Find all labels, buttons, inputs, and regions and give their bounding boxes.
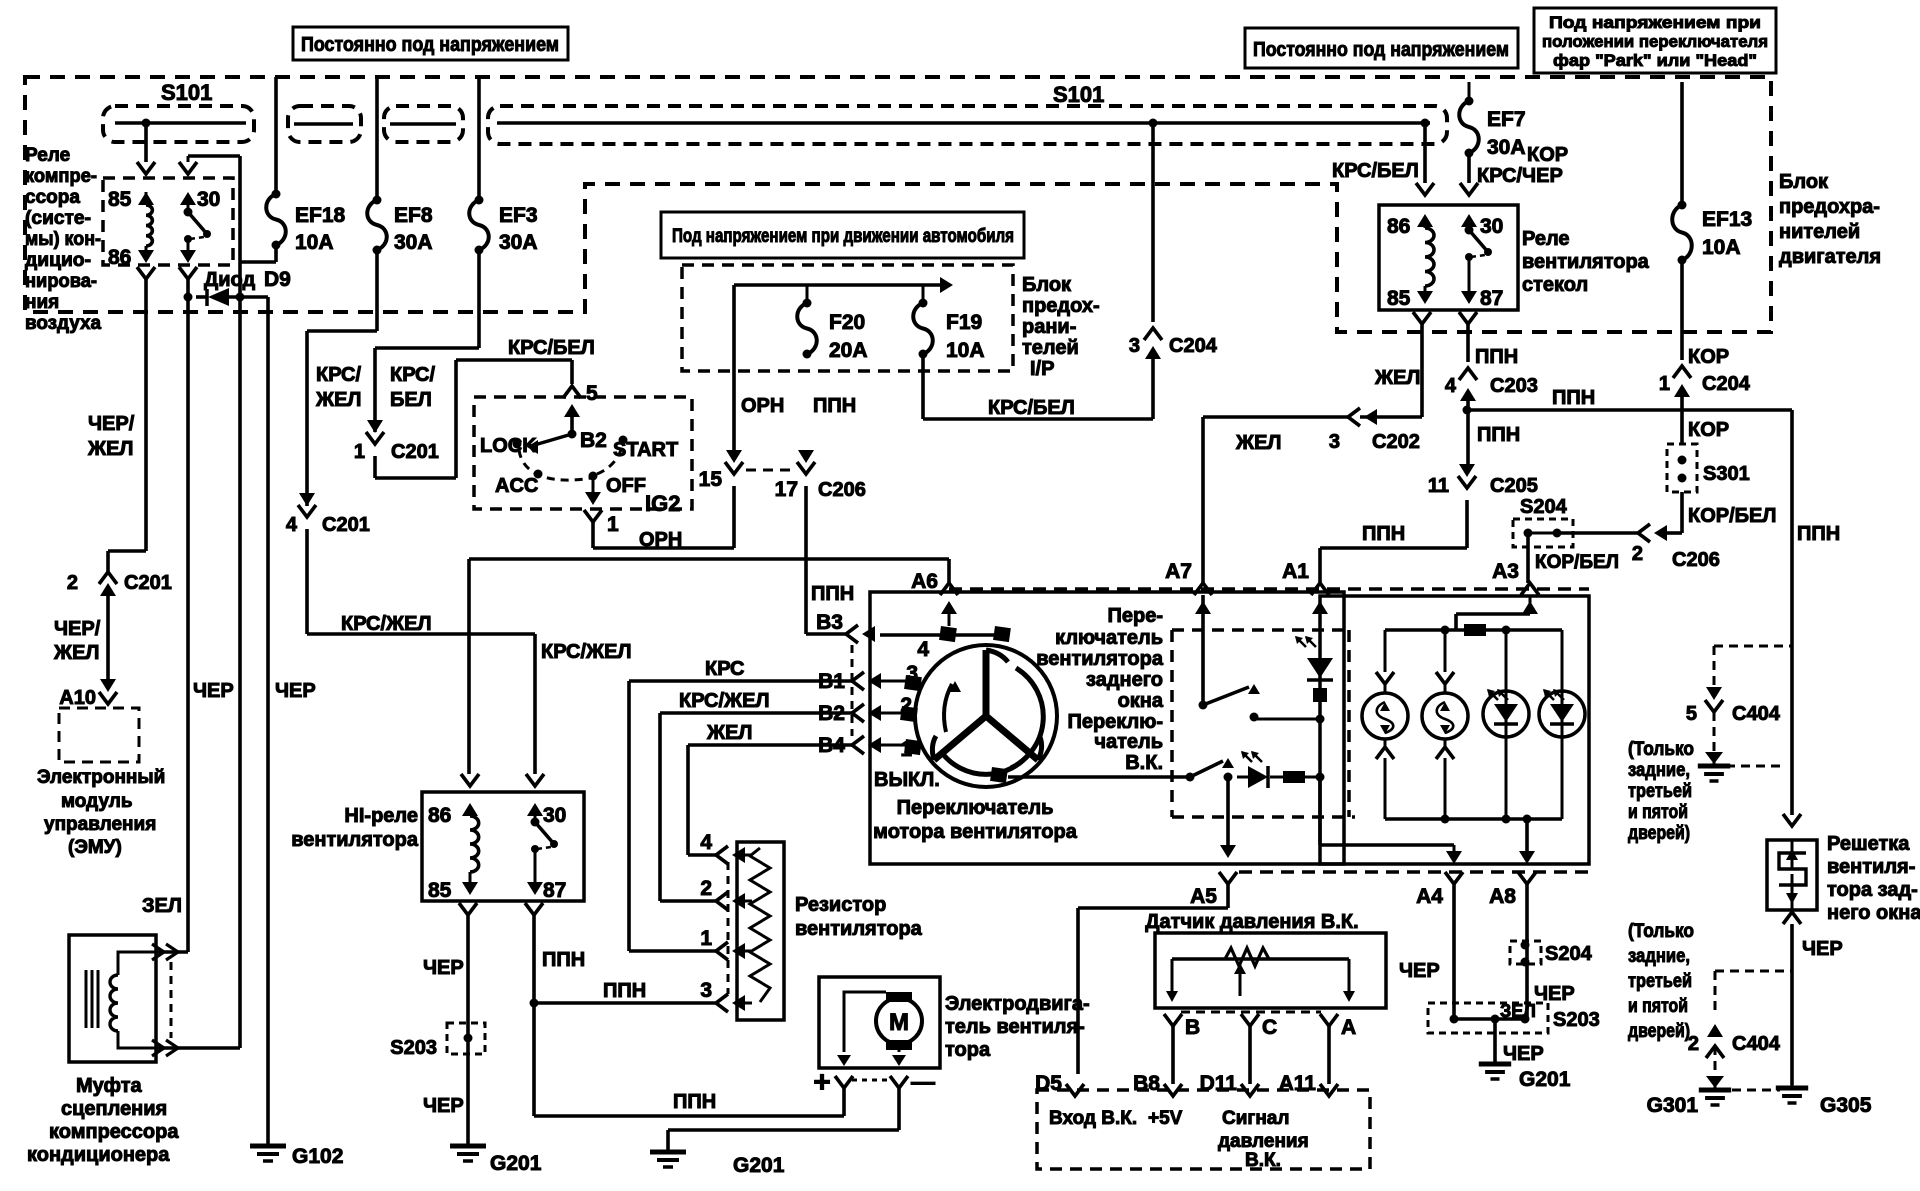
svg-text:I/P: I/P — [1030, 358, 1054, 380]
svg-text:S101: S101 — [161, 80, 212, 105]
svg-text:Датчик давления В.К.: Датчик давления В.К. — [1145, 911, 1358, 933]
svg-text:задние,: задние, — [1628, 760, 1690, 781]
svg-text:А: А — [1341, 1016, 1356, 1039]
svg-text:компре-: компре- — [25, 166, 97, 187]
svg-text:ППН: ППН — [1475, 346, 1518, 368]
svg-text:А3: А3 — [1492, 560, 1519, 583]
svg-text:ЖЕЛ: ЖЕЛ — [706, 722, 752, 744]
svg-text:2: 2 — [700, 877, 712, 900]
svg-text:85: 85 — [108, 188, 132, 211]
svg-text:S204: S204 — [1520, 496, 1568, 518]
svg-text:А5: А5 — [1190, 885, 1217, 908]
svg-text:телей: телей — [1022, 337, 1079, 359]
svg-text:ВЫКЛ.: ВЫКЛ. — [874, 769, 940, 791]
svg-text:EF13: EF13 — [1702, 208, 1752, 231]
svg-text:S203: S203 — [1553, 1009, 1600, 1031]
svg-text:третьей: третьей — [1628, 971, 1692, 992]
svg-text:86: 86 — [1387, 215, 1410, 238]
svg-text:Сигнал: Сигнал — [1222, 1108, 1289, 1129]
svg-text:КОР/БЕЛ: КОР/БЕЛ — [1535, 552, 1619, 573]
svg-text:ЧЕР: ЧЕР — [1399, 960, 1440, 982]
svg-text:КРС/БЕЛ: КРС/БЕЛ — [988, 397, 1075, 419]
svg-text:В.К.: В.К. — [1125, 752, 1163, 774]
svg-text:стекол: стекол — [1522, 274, 1588, 296]
svg-text:А8: А8 — [1489, 885, 1516, 908]
svg-text:C: C — [1262, 1016, 1277, 1039]
svg-text:EF18: EF18 — [295, 204, 346, 227]
svg-text:ППН: ППН — [542, 949, 585, 971]
svg-text:мотора вентилятора: мотора вентилятора — [873, 821, 1078, 843]
svg-text:модуль: модуль — [61, 791, 133, 812]
svg-text:тора: тора — [945, 1039, 991, 1061]
svg-text:2: 2 — [900, 694, 912, 717]
svg-text:ссора: ссора — [25, 187, 80, 208]
svg-text:ЧЕР: ЧЕР — [275, 680, 316, 702]
svg-text:него окна: него окна — [1827, 902, 1920, 924]
svg-text:EF3: EF3 — [499, 204, 538, 227]
svg-text:EF8: EF8 — [394, 204, 433, 227]
svg-text:С202: С202 — [1372, 431, 1420, 453]
svg-text:М: М — [889, 1009, 909, 1036]
svg-text:ППН: ППН — [673, 1091, 716, 1113]
svg-text:ЗЕЛ: ЗЕЛ — [142, 895, 182, 917]
svg-text:Реле: Реле — [25, 145, 70, 166]
svg-text:85: 85 — [428, 879, 452, 902]
svg-text:ППН: ППН — [1362, 523, 1405, 545]
svg-text:ОРН: ОРН — [741, 395, 784, 417]
svg-text:Муфта: Муфта — [76, 1075, 143, 1097]
svg-text:3: 3 — [1329, 431, 1340, 453]
svg-text:БЕЛ: БЕЛ — [390, 389, 432, 411]
svg-text:HI-реле: HI-реле — [344, 805, 418, 827]
svg-text:КРС/: КРС/ — [316, 364, 361, 386]
svg-text:—: — — [911, 1069, 935, 1096]
svg-text:17: 17 — [775, 478, 798, 501]
svg-text:1: 1 — [607, 513, 619, 536]
svg-text:(систе-: (систе- — [25, 208, 91, 229]
svg-text:(ЭМУ): (ЭМУ) — [68, 837, 122, 858]
svg-text:КРС/БЕЛ: КРС/БЕЛ — [1332, 160, 1419, 182]
svg-text:С203: С203 — [1490, 375, 1538, 397]
svg-text:5: 5 — [586, 382, 598, 405]
svg-text:2: 2 — [67, 572, 78, 594]
svg-text:В.К.: В.К. — [1245, 1150, 1281, 1171]
svg-text:ЧЕР/: ЧЕР/ — [54, 618, 101, 640]
svg-text:ЧЕР: ЧЕР — [423, 957, 464, 979]
svg-text:заднего: заднего — [1086, 669, 1163, 691]
svg-text:С201: С201 — [391, 441, 439, 463]
svg-text:тора зад-: тора зад- — [1827, 879, 1918, 901]
svg-text:Под напряжением при движении а: Под напряжением при движении автомобиля — [672, 226, 1014, 247]
svg-text:ППН: ППН — [811, 583, 854, 605]
svg-text:КРС/ЖЕЛ: КРС/ЖЕЛ — [541, 641, 632, 663]
svg-text:1: 1 — [354, 441, 365, 463]
svg-text:ЖЕЛ: ЖЕЛ — [1235, 432, 1281, 454]
svg-text:30: 30 — [197, 188, 220, 211]
svg-text:вентилятора: вентилятора — [1036, 648, 1164, 670]
svg-text:4: 4 — [700, 831, 712, 854]
svg-text:G102: G102 — [292, 1145, 343, 1168]
svg-text:КОР: КОР — [1527, 144, 1568, 166]
svg-text:вентилятора: вентилятора — [795, 918, 923, 940]
svg-text:дицио-: дицио- — [25, 250, 91, 271]
svg-text:10A: 10A — [295, 231, 334, 254]
svg-text:С205: С205 — [1490, 475, 1538, 497]
svg-text:воздуха: воздуха — [25, 313, 101, 334]
svg-text:рани-: рани- — [1022, 316, 1076, 338]
svg-text:КРС/ЖЕЛ: КРС/ЖЕЛ — [341, 613, 432, 635]
svg-text:тель вентиля-: тель вентиля- — [945, 1016, 1085, 1038]
svg-text:F19: F19 — [946, 311, 982, 334]
svg-text:11: 11 — [1428, 475, 1449, 497]
svg-text:фар "Park" или "Head": фар "Park" или "Head" — [1553, 51, 1757, 70]
svg-text:КРС/: КРС/ — [390, 364, 435, 386]
svg-text:двигателя: двигателя — [1779, 246, 1881, 268]
svg-text:С204: С204 — [1702, 373, 1751, 395]
svg-text:компрессора: компрессора — [49, 1121, 179, 1143]
svg-text:Пере-: Пере- — [1108, 605, 1164, 627]
svg-text:и пятой: и пятой — [1628, 802, 1688, 823]
svg-text:30A: 30A — [394, 231, 433, 254]
svg-text:5: 5 — [1686, 703, 1697, 725]
svg-text:ОРН: ОРН — [639, 529, 682, 551]
svg-text:ЖЕЛ: ЖЕЛ — [53, 642, 99, 664]
svg-text:IG2: IG2 — [645, 491, 680, 516]
svg-text:ППН: ППН — [603, 980, 646, 1002]
svg-text:15: 15 — [699, 468, 723, 491]
svg-text:ЖЕЛ: ЖЕЛ — [315, 389, 361, 411]
svg-text:нирова-: нирова- — [25, 271, 97, 292]
svg-text:30: 30 — [543, 804, 566, 827]
svg-text:1: 1 — [900, 738, 912, 761]
svg-text:S301: S301 — [1703, 463, 1750, 485]
svg-text:3: 3 — [1129, 335, 1140, 357]
svg-text:и пятой: и пятой — [1628, 996, 1688, 1017]
svg-text:С206: С206 — [1672, 549, 1720, 571]
svg-text:ключатель: ключатель — [1055, 627, 1163, 649]
svg-text:EF7: EF7 — [1487, 108, 1526, 131]
svg-text:87: 87 — [1480, 287, 1503, 310]
svg-text:ЧЕР: ЧЕР — [193, 680, 234, 702]
svg-text:10A: 10A — [1702, 236, 1741, 259]
svg-text:С206: С206 — [818, 479, 866, 501]
svg-text:предох-: предох- — [1022, 295, 1100, 317]
svg-text:Резистор: Резистор — [795, 894, 886, 916]
svg-text:G305: G305 — [1820, 1094, 1872, 1117]
svg-text:Электронный: Электронный — [37, 767, 165, 788]
svg-text:КРС/БЕЛ: КРС/БЕЛ — [508, 337, 595, 359]
svg-text:B2: B2 — [580, 429, 607, 452]
svg-text:Блок: Блок — [1779, 171, 1829, 193]
svg-text:С404: С404 — [1732, 703, 1781, 725]
svg-text:LOCK: LOCK — [480, 435, 537, 457]
svg-text:ЗЕЛ: ЗЕЛ — [1500, 1001, 1536, 1021]
svg-text:20A: 20A — [829, 339, 868, 362]
svg-text:ния: ния — [25, 292, 59, 313]
svg-text:ППН: ППН — [1477, 424, 1520, 446]
svg-text:3: 3 — [906, 662, 918, 685]
svg-text:третьей: третьей — [1628, 781, 1692, 802]
svg-text:1: 1 — [1659, 373, 1670, 395]
svg-text:4: 4 — [1445, 375, 1457, 397]
svg-text:Постоянно под напряжением: Постоянно под напряжением — [1253, 39, 1509, 61]
svg-text:ЧЕР: ЧЕР — [1802, 938, 1843, 960]
svg-text:B: B — [1185, 1016, 1200, 1039]
svg-text:предохра-: предохра- — [1779, 196, 1880, 218]
svg-text:3: 3 — [700, 979, 712, 1002]
svg-text:А4: А4 — [1416, 885, 1443, 908]
svg-text:дверей): дверей) — [1628, 1021, 1690, 1042]
svg-text:1: 1 — [700, 927, 712, 950]
svg-text:Блок: Блок — [1022, 274, 1072, 296]
svg-text:кондиционера: кондиционера — [27, 1144, 170, 1166]
svg-text:86: 86 — [108, 246, 131, 269]
svg-text:положении переключателя: положении переключателя — [1542, 32, 1768, 51]
svg-text:S203: S203 — [390, 1037, 437, 1059]
svg-text:ACC: ACC — [495, 475, 538, 497]
svg-text:87: 87 — [543, 879, 566, 902]
svg-text:ЖЕЛ: ЖЕЛ — [1374, 367, 1420, 389]
svg-text:10A: 10A — [946, 339, 985, 362]
svg-text:управления: управления — [44, 814, 156, 835]
svg-text:Диод: Диод — [204, 269, 255, 291]
svg-text:сцепления: сцепления — [61, 1098, 167, 1120]
svg-text:КОР/БЕЛ: КОР/БЕЛ — [1688, 505, 1776, 527]
svg-text:вентиля-: вентиля- — [1827, 856, 1915, 878]
svg-text:С201: С201 — [322, 514, 370, 536]
svg-text:ППН: ППН — [1797, 523, 1840, 545]
svg-text:Электродвига-: Электродвига- — [945, 993, 1090, 1015]
svg-text:нителей: нителей — [1779, 221, 1860, 243]
svg-text:КОР: КОР — [1688, 419, 1729, 441]
svg-text:Переклю-: Переклю- — [1067, 711, 1163, 733]
svg-text:вентилятора: вентилятора — [1522, 251, 1650, 273]
svg-text:С201: С201 — [124, 572, 172, 594]
svg-text:С404: С404 — [1732, 1033, 1781, 1055]
svg-text:задние,: задние, — [1628, 946, 1690, 967]
svg-text:окна: окна — [1118, 690, 1164, 712]
svg-text:А10: А10 — [59, 687, 96, 709]
svg-text:G201: G201 — [1519, 1068, 1571, 1091]
svg-text:Переключатель: Переключатель — [897, 797, 1054, 819]
svg-text:А7: А7 — [1165, 560, 1192, 583]
svg-text:S204: S204 — [1545, 943, 1593, 965]
svg-text:С204: С204 — [1169, 335, 1218, 357]
svg-text:4: 4 — [286, 514, 298, 536]
svg-text:2: 2 — [1632, 543, 1643, 565]
svg-text:чатель: чатель — [1094, 731, 1163, 753]
svg-text:КРС/ЧЕР: КРС/ЧЕР — [1477, 165, 1563, 187]
svg-text:дверей): дверей) — [1628, 823, 1690, 844]
svg-text:давления: давления — [1218, 1131, 1309, 1152]
svg-text:G201: G201 — [733, 1154, 785, 1177]
svg-text:S101: S101 — [1053, 82, 1104, 107]
svg-text:+: + — [813, 1066, 831, 1099]
svg-text:G301: G301 — [1647, 1094, 1699, 1117]
svg-text:А6: А6 — [911, 570, 938, 593]
svg-text:30A: 30A — [499, 231, 538, 254]
svg-text:ЖЕЛ: ЖЕЛ — [87, 438, 133, 460]
svg-text:OFF: OFF — [606, 475, 646, 497]
svg-text:КОР: КОР — [1688, 346, 1729, 368]
svg-text:B3: B3 — [816, 611, 843, 634]
svg-text:А1: А1 — [1282, 560, 1309, 583]
svg-text:Реле: Реле — [1522, 228, 1570, 250]
svg-text:вентилятора: вентилятора — [291, 829, 419, 851]
svg-text:(Только: (Только — [1628, 739, 1694, 760]
svg-text:ЧЕР: ЧЕР — [423, 1095, 464, 1117]
svg-text:+5V: +5V — [1148, 1108, 1183, 1129]
svg-text:Вход В.К.: Вход В.К. — [1049, 1108, 1137, 1129]
svg-text:мы) кон-: мы) кон- — [25, 229, 101, 250]
svg-text:30A: 30A — [1487, 136, 1526, 159]
svg-text:85: 85 — [1387, 287, 1411, 310]
svg-text:D9: D9 — [264, 268, 291, 291]
svg-text:КРС: КРС — [705, 658, 745, 680]
svg-text:F20: F20 — [829, 311, 865, 334]
svg-text:ЧЕР/: ЧЕР/ — [88, 413, 135, 435]
svg-text:ППН: ППН — [1552, 387, 1595, 409]
svg-text:КРС/ЖЕЛ: КРС/ЖЕЛ — [679, 690, 770, 712]
svg-text:G201: G201 — [490, 1152, 542, 1175]
svg-text:4: 4 — [917, 638, 929, 661]
svg-text:Решетка: Решетка — [1827, 833, 1910, 855]
svg-text:86: 86 — [428, 804, 451, 827]
svg-text:30: 30 — [1480, 215, 1503, 238]
svg-text:ППН: ППН — [813, 395, 856, 417]
svg-text:Под напряжением при: Под напряжением при — [1549, 13, 1761, 32]
svg-text:START: START — [613, 439, 678, 461]
svg-text:(Только: (Только — [1628, 921, 1694, 942]
svg-text:Постоянно под напряжением: Постоянно под напряжением — [301, 34, 559, 56]
